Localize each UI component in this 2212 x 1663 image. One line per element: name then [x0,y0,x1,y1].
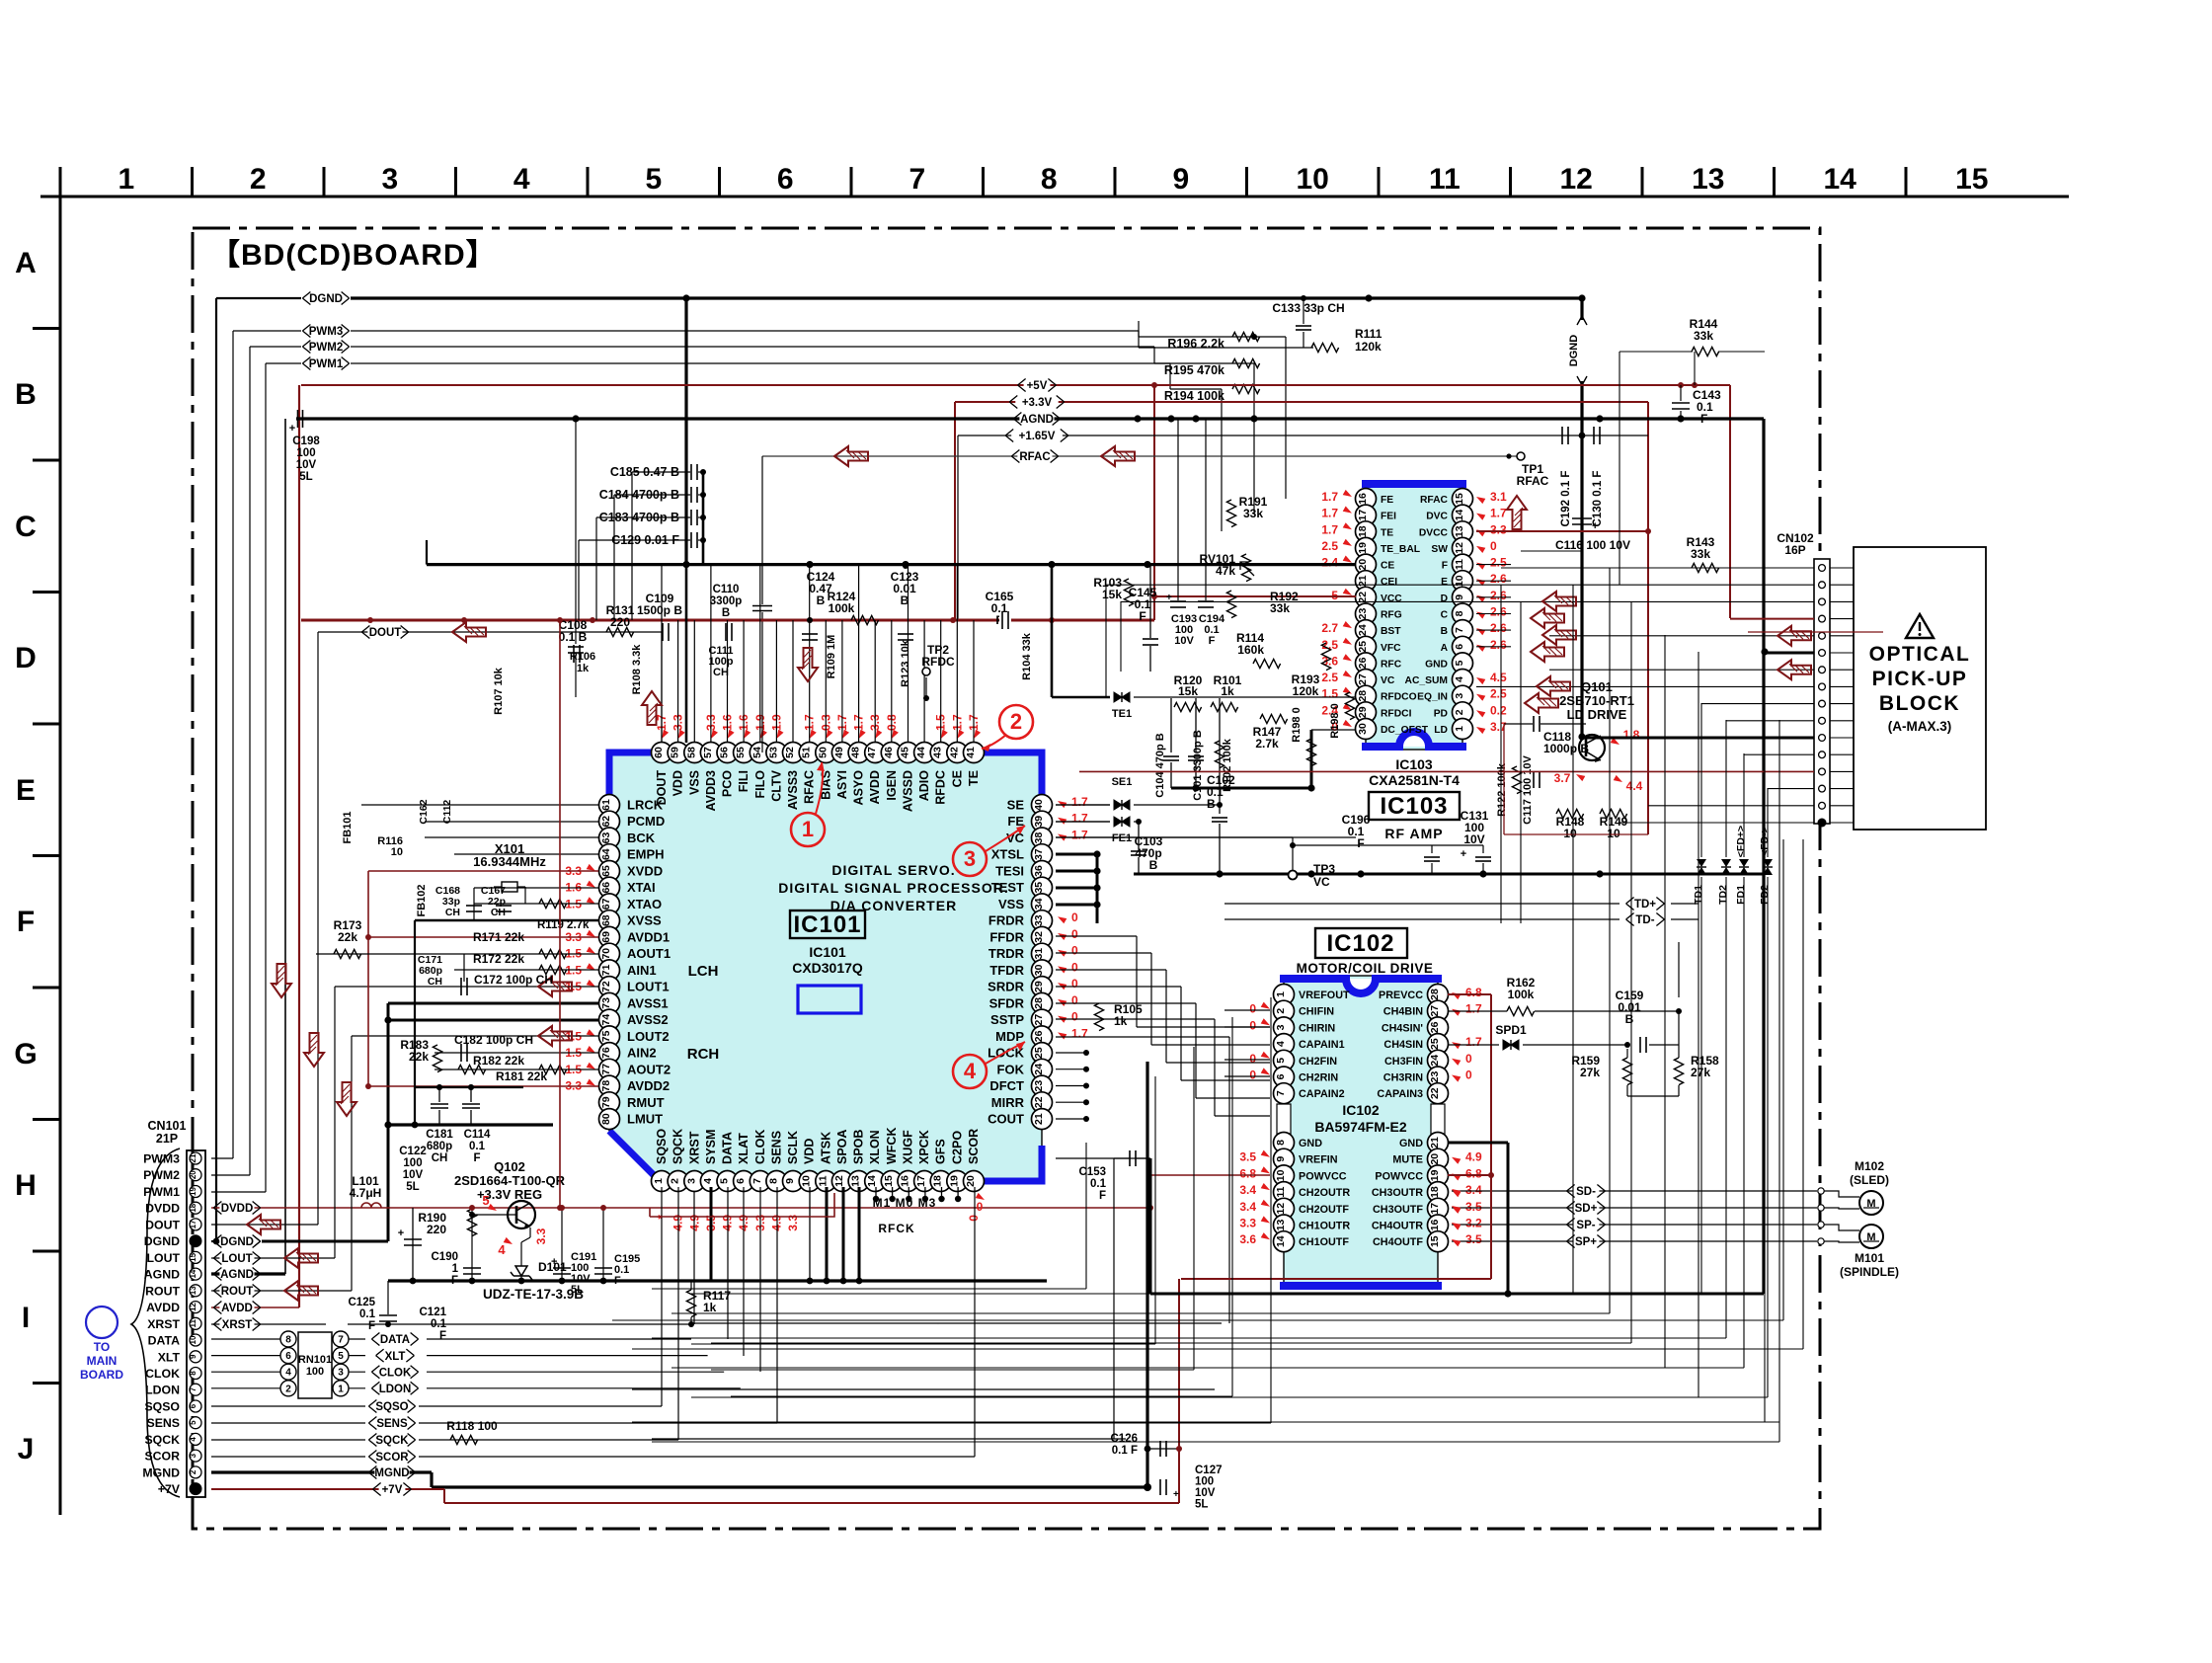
svg-text:BST: BST [1381,626,1401,637]
svg-text:1.7: 1.7 [1071,812,1088,826]
svg-text:SP+: SP+ [1575,1236,1597,1248]
svg-text:25: 25 [1429,1038,1441,1050]
svg-text:B: B [1149,858,1158,872]
svg-text:30: 30 [1357,723,1369,735]
svg-text:50: 50 [817,747,829,758]
svg-text:VSS: VSS [687,770,701,795]
svg-text:1500p B: 1500p B [637,603,682,617]
svg-text:7: 7 [189,1386,197,1391]
svg-text:CHIFIN: CHIFIN [1299,1006,1334,1018]
svg-text:(SPINDLE): (SPINDLE) [1840,1265,1899,1279]
svg-text:SW: SW [1431,544,1448,555]
svg-text:CH1OUTR: CH1OUTR [1299,1221,1350,1232]
svg-text:0: 0 [977,1200,984,1214]
svg-text:FRDR: FRDR [988,913,1025,928]
svg-text:R196 2.2k: R196 2.2k [1167,337,1224,351]
svg-text:21P: 21P [156,1132,178,1146]
svg-text:F: F [439,1330,446,1342]
svg-text:6.8: 6.8 [1239,1166,1256,1180]
svg-text:29: 29 [1357,706,1369,718]
svg-text:+7V: +7V [382,1484,403,1496]
svg-text:72: 72 [600,981,612,992]
svg-text:1: 1 [653,1178,665,1184]
svg-text:MUTE: MUTE [1392,1154,1423,1166]
svg-text:OPTICAL: OPTICAL [1869,643,1971,666]
svg-text:3.2: 3.2 [1465,1217,1482,1230]
svg-text:14: 14 [1454,510,1465,521]
svg-text:C181: C181 [426,1129,453,1141]
svg-text:34: 34 [1033,898,1045,910]
svg-text:C: C [15,511,37,543]
svg-text:AVDD: AVDD [868,770,882,805]
svg-text:65: 65 [600,865,612,877]
svg-text:SE: SE [1007,798,1025,813]
svg-text:18: 18 [1429,1186,1441,1198]
svg-text:1.7: 1.7 [1465,1035,1482,1049]
svg-text:21: 21 [1033,1113,1045,1125]
svg-text:17: 17 [1429,1203,1441,1215]
svg-text:100: 100 [306,1366,324,1378]
svg-text:8: 8 [189,1371,197,1376]
svg-text:6.8: 6.8 [1465,986,1482,999]
svg-text:RFAC: RFAC [1420,495,1449,506]
svg-text:VC: VC [1313,875,1330,889]
svg-text:0: 0 [1071,1010,1078,1024]
svg-text:CN101: CN101 [148,1119,187,1133]
svg-text:B: B [1441,626,1448,637]
svg-text:C117 100 10V: C117 100 10V [1522,754,1534,824]
svg-text:TD-: TD- [1635,914,1654,926]
svg-text:LOUT1: LOUT1 [627,980,670,994]
svg-text:15: 15 [1429,1235,1441,1247]
svg-text:DGND: DGND [144,1234,180,1248]
svg-text:F: F [1209,635,1216,647]
svg-text:FILI: FILI [737,770,750,792]
svg-text:CH2OUTF: CH2OUTF [1299,1204,1349,1216]
svg-text:680p: 680p [427,1141,452,1152]
svg-text:TE: TE [967,770,981,786]
svg-text:36: 36 [1033,865,1045,877]
svg-text:F: F [473,1152,480,1164]
svg-text:R194 100k: R194 100k [1164,389,1224,403]
svg-text:3.7: 3.7 [1554,771,1571,785]
svg-text:F: F [1442,561,1448,572]
svg-text:AOUT1: AOUT1 [627,946,671,961]
svg-text:LOUT: LOUT [147,1251,181,1265]
svg-text:FD1: FD1 [1735,885,1747,905]
svg-text:TESI: TESI [995,864,1024,879]
svg-text:16.9344MHz: 16.9344MHz [473,854,546,869]
svg-text:FB101: FB101 [342,811,354,843]
svg-text:12: 12 [189,1303,197,1311]
svg-text:13: 13 [189,1286,197,1295]
svg-text:RFDC: RFDC [934,770,948,805]
svg-text:10: 10 [1275,1169,1287,1181]
svg-text:100k: 100k [1508,988,1535,1001]
svg-text:1: 1 [452,1263,459,1275]
svg-text:0: 0 [1465,1052,1472,1066]
svg-text:11: 11 [1275,1186,1287,1197]
svg-text:73: 73 [600,997,612,1009]
svg-text:2.7: 2.7 [1321,621,1338,635]
svg-text:7: 7 [338,1335,344,1346]
svg-text:RFAC: RFAC [803,770,817,804]
svg-text:3: 3 [1275,1024,1287,1030]
svg-text:CAPAIN1: CAPAIN1 [1299,1039,1345,1051]
svg-text:BOARD: BOARD [80,1368,123,1382]
svg-text:10: 10 [189,1335,197,1344]
svg-text:8: 8 [767,1178,779,1184]
svg-text:LDON: LDON [379,1384,412,1395]
svg-text:FB102: FB102 [416,884,428,916]
svg-text:AVSSD: AVSSD [902,770,915,812]
svg-text:CH4SIN': CH4SIN' [1382,1022,1424,1034]
svg-text:0: 0 [1249,1052,1256,1066]
svg-text:220: 220 [427,1223,446,1236]
svg-text:56: 56 [719,747,731,758]
svg-text:MGND: MGND [374,1467,409,1479]
svg-text:F: F [1139,609,1145,623]
svg-text:TRDR: TRDR [988,946,1025,961]
svg-text:CH3OUTF: CH3OUTF [1373,1204,1423,1216]
svg-text:76: 76 [600,1047,612,1059]
svg-text:C162: C162 [418,799,430,824]
svg-text:59: 59 [670,747,681,758]
svg-text:C122: C122 [399,1146,427,1157]
svg-text:1.7: 1.7 [1071,1026,1088,1040]
svg-text:CH1OUTF: CH1OUTF [1299,1236,1349,1248]
svg-text:FE1: FE1 [1112,832,1132,844]
svg-text:1.7: 1.7 [1321,507,1338,520]
svg-text:10: 10 [1563,827,1577,840]
svg-text:4: 4 [1454,676,1465,682]
svg-text:RFAC: RFAC [1019,451,1050,463]
svg-text:G: G [14,1038,37,1070]
svg-text:VCC: VCC [1381,594,1402,604]
svg-text:2.6: 2.6 [1490,638,1507,652]
svg-text:R171 22k: R171 22k [473,930,524,944]
svg-text:LRCK: LRCK [627,798,664,813]
svg-text:M101: M101 [1855,1251,1884,1265]
svg-text:B: B [15,378,37,411]
svg-text:FFDR: FFDR [989,929,1024,944]
svg-text:AVDD2: AVDD2 [627,1078,670,1093]
svg-text:XLON: XLON [868,1130,882,1164]
svg-text:27: 27 [1357,673,1369,685]
svg-text:+1.65V: +1.65V [1019,431,1056,442]
svg-text:13: 13 [1275,1220,1287,1231]
svg-text:CAPAIN2: CAPAIN2 [1299,1088,1345,1100]
svg-text:33k: 33k [1270,601,1290,615]
svg-text:PWM2: PWM2 [309,342,344,354]
svg-text:27k: 27k [1691,1066,1710,1079]
svg-text:48: 48 [850,747,862,758]
svg-text:1000p B: 1000p B [1543,742,1589,755]
svg-text:EMPH: EMPH [627,847,665,862]
svg-text:E: E [1441,577,1448,588]
svg-text:3.3: 3.3 [1239,1217,1256,1230]
svg-text:FILO: FILO [753,770,767,799]
svg-text:5: 5 [645,163,662,196]
svg-text:6: 6 [285,1351,291,1362]
svg-text:15k: 15k [1178,684,1198,698]
svg-text:4.9: 4.9 [1465,1150,1482,1164]
svg-text:0: 0 [1071,977,1078,990]
svg-text:VFC: VFC [1381,643,1401,654]
svg-text:8: 8 [1275,1140,1287,1146]
svg-text:C192 0.1 F: C192 0.1 F [1560,471,1572,527]
svg-text:LOUT: LOUT [221,1253,252,1265]
svg-text:14: 14 [189,1269,197,1278]
svg-text:CLTV: CLTV [769,769,783,801]
svg-text:IC102: IC102 [1342,1102,1380,1118]
svg-text:AVSS3: AVSS3 [786,770,800,810]
svg-text:A: A [1441,643,1449,654]
svg-text:ASYO: ASYO [852,770,866,806]
svg-text:BA5974FM-E2: BA5974FM-E2 [1314,1119,1407,1135]
svg-text:4: 4 [189,1437,197,1442]
svg-text:5: 5 [1331,589,1338,602]
svg-text:45: 45 [900,747,911,758]
svg-text:IC101: IC101 [793,911,861,938]
svg-text:0: 0 [1071,927,1078,941]
svg-text:3: 3 [685,1178,697,1184]
svg-text:+: + [551,1256,557,1268]
svg-text:6: 6 [1275,1073,1287,1079]
svg-text:0: 0 [1071,911,1078,924]
svg-text:9: 9 [1454,594,1465,600]
svg-text:26: 26 [1357,657,1369,669]
svg-text:53: 53 [767,747,779,758]
svg-text:CE: CE [950,770,964,787]
svg-text:3300p: 3300p [710,595,743,607]
svg-text:IC102: IC102 [1326,930,1394,957]
svg-text:CH2FIN: CH2FIN [1299,1056,1337,1068]
svg-text:61: 61 [600,799,612,811]
svg-text:1k: 1k [703,1301,717,1314]
svg-text:PCO: PCO [721,770,735,797]
svg-text:25: 25 [1357,641,1369,653]
svg-text:0: 0 [1490,539,1497,553]
svg-text:2.5: 2.5 [1321,671,1338,684]
svg-text:24: 24 [1033,1064,1045,1075]
svg-text:8: 8 [1454,610,1465,616]
svg-text:<FD->: <FD-> [1759,827,1771,856]
svg-text:SQSO: SQSO [375,1401,408,1413]
svg-text:FD2: FD2 [1759,885,1771,905]
svg-text:6: 6 [189,1403,197,1408]
svg-text:I: I [22,1302,30,1334]
svg-text:10: 10 [391,846,403,858]
svg-text:+3.3V: +3.3V [1022,397,1053,409]
svg-text:1k: 1k [1221,684,1234,698]
svg-text:0: 0 [967,1215,981,1222]
svg-text:SFDR: SFDR [989,995,1025,1010]
svg-text:2.6: 2.6 [1490,621,1507,635]
svg-text:IGEN: IGEN [885,770,899,801]
svg-text:10V: 10V [296,459,317,471]
svg-text:9: 9 [784,1178,796,1184]
svg-text:CH4OUTR: CH4OUTR [1372,1221,1423,1232]
svg-text:R104 33k: R104 33k [1021,632,1033,680]
svg-text:21: 21 [189,1153,197,1162]
svg-text:8: 8 [1041,163,1058,196]
svg-text:1k: 1k [577,663,590,674]
svg-text:1.7: 1.7 [1465,1002,1482,1016]
svg-text:5: 5 [482,1193,489,1208]
svg-text:R107 10k: R107 10k [493,667,505,715]
svg-text:FOK: FOK [997,1062,1025,1076]
svg-text:SP-: SP- [1576,1220,1595,1231]
svg-text:SQCK: SQCK [375,1435,409,1447]
svg-text:20: 20 [1357,559,1369,571]
svg-text:VC: VC [1381,675,1395,686]
svg-text:ROUT: ROUT [221,1286,254,1298]
svg-text:SENS: SENS [376,1418,408,1430]
svg-text:XVDD: XVDD [627,864,663,879]
svg-text:MDP: MDP [995,1029,1024,1044]
svg-text:46: 46 [883,747,895,758]
svg-text:19: 19 [1357,542,1369,554]
svg-text:SENS: SENS [769,1131,783,1164]
svg-text:1.7: 1.7 [1071,829,1088,842]
svg-text:14: 14 [866,1175,878,1187]
svg-text:1: 1 [118,163,134,196]
svg-text:CXD3017Q: CXD3017Q [792,960,863,976]
svg-text:B: B [722,607,730,619]
svg-text:24: 24 [1357,624,1369,636]
svg-text:22: 22 [1033,1096,1045,1108]
svg-text:3.5: 3.5 [1239,1150,1256,1164]
svg-text:RFCK: RFCK [878,1222,914,1235]
svg-text:C125: C125 [349,1297,376,1308]
svg-text:LOUT2: LOUT2 [627,1029,670,1044]
svg-text:33k: 33k [1694,329,1713,343]
svg-text:9: 9 [1275,1156,1287,1162]
svg-text:DATA: DATA [148,1334,180,1348]
svg-text:16: 16 [1429,1220,1441,1231]
svg-text:PREVCC: PREVCC [1379,990,1423,1001]
svg-text:J: J [18,1433,35,1465]
svg-text:DOUT: DOUT [145,1218,180,1231]
svg-text:DATA: DATA [380,1334,410,1346]
svg-text:3.6: 3.6 [1239,1232,1256,1246]
svg-text:AVDD: AVDD [146,1301,180,1314]
svg-text:47: 47 [866,747,878,758]
svg-text:24: 24 [1429,1055,1441,1067]
svg-text:F: F [1357,836,1364,850]
svg-text:5L: 5L [299,471,312,483]
svg-text:UDZ-TE-17-3.9B: UDZ-TE-17-3.9B [483,1287,584,1302]
svg-text:SE1: SE1 [1112,776,1133,788]
svg-text:F: F [1099,1190,1106,1202]
svg-text:DGND: DGND [220,1236,254,1248]
svg-text:PWM3: PWM3 [309,326,344,338]
svg-text:19: 19 [1429,1169,1441,1181]
svg-text:TE_BAL: TE_BAL [1381,544,1420,555]
svg-text:4: 4 [964,1059,977,1083]
svg-text:1k: 1k [1114,1014,1128,1028]
svg-text:R123 10k: R123 10k [900,639,911,687]
svg-text:SQSO: SQSO [655,1129,669,1164]
svg-text:RFDCO: RFDCO [1381,692,1417,703]
svg-text:160k: 160k [1237,643,1264,657]
svg-text:8: 8 [285,1335,291,1346]
svg-text:C172 100p CH: C172 100p CH [474,973,553,987]
svg-text:IC101: IC101 [809,944,846,960]
svg-text:3: 3 [189,1453,197,1458]
svg-text:0: 0 [1249,1002,1256,1016]
svg-text:DVC: DVC [1426,512,1448,522]
svg-text:20: 20 [1429,1153,1441,1165]
svg-text:(A-MAX.3): (A-MAX.3) [1888,719,1952,734]
svg-text:R111: R111 [1355,327,1382,341]
svg-text:SPOB: SPOB [852,1130,866,1164]
svg-text:TD2: TD2 [1717,885,1729,905]
svg-text:43: 43 [932,747,944,758]
svg-text:5L: 5L [571,1284,584,1296]
svg-text:33k: 33k [1243,507,1263,520]
svg-text:B: B [1625,1012,1634,1026]
svg-text:18: 18 [932,1175,944,1187]
svg-text:XVSS: XVSS [627,913,662,928]
svg-text:CH: CH [713,667,729,678]
svg-text:A: A [15,247,37,279]
svg-text:0: 0 [1071,993,1078,1007]
svg-text:DIGITAL SERVO.: DIGITAL SERVO. [831,862,955,878]
svg-text:18: 18 [189,1203,197,1212]
svg-text:64: 64 [600,848,612,860]
svg-text:55: 55 [735,747,747,758]
svg-text:2: 2 [1010,709,1022,734]
svg-text:R109 1M: R109 1M [826,635,837,679]
svg-text:CH4SIN: CH4SIN [1383,1039,1423,1051]
svg-text:74: 74 [600,1014,612,1026]
svg-text:TD+: TD+ [1634,899,1656,911]
svg-text:PCMD: PCMD [627,814,665,829]
svg-text:RFDC: RFDC [921,655,955,669]
svg-text:6.8: 6.8 [1465,1166,1482,1180]
svg-text:C110: C110 [713,584,740,595]
svg-text:6: 6 [777,163,794,196]
svg-text:WFCK: WFCK [885,1128,899,1165]
svg-text:SPOA: SPOA [835,1130,849,1164]
svg-text:5: 5 [338,1351,344,1362]
svg-text:C121: C121 [420,1307,447,1318]
svg-text:37: 37 [1033,848,1045,860]
svg-text:41: 41 [965,747,977,758]
svg-text:66: 66 [600,882,612,894]
svg-text:VREFOUT: VREFOUT [1299,990,1350,1001]
svg-text:4.4: 4.4 [1626,779,1643,793]
svg-text:PWM3: PWM3 [143,1152,180,1166]
svg-text:15: 15 [189,1252,197,1261]
svg-text:4: 4 [285,1368,291,1379]
svg-text:MGND: MGND [142,1465,180,1479]
svg-text:12: 12 [1560,163,1593,196]
svg-text:GFS: GFS [934,1139,948,1164]
svg-text:CH: CH [491,907,506,918]
svg-text:DVDD: DVDD [145,1202,180,1216]
svg-text:+: + [1173,1489,1179,1500]
svg-text:120k: 120k [1293,684,1319,698]
svg-text:CHIRIN: CHIRIN [1299,1022,1335,1034]
svg-text:SPD1: SPD1 [1495,1023,1527,1037]
svg-text:0: 0 [1071,944,1078,958]
svg-text:M102: M102 [1855,1159,1884,1173]
svg-text:E: E [16,774,36,807]
svg-text:16: 16 [900,1175,911,1187]
